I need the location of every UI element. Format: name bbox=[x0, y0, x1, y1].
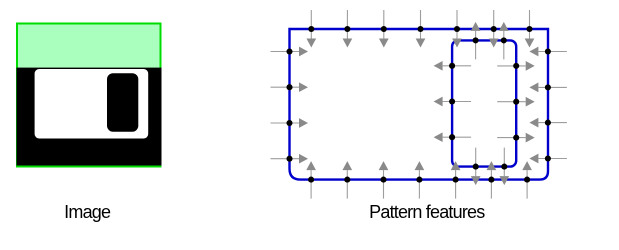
feature point outer-top 3 bbox=[379, 10, 389, 48]
outer pattern contour (blue, sharp top corners, rounded bottom corners) bbox=[290, 29, 549, 180]
feature point outer-bottom 7 bbox=[522, 161, 532, 199]
feature point outer-left 3 bbox=[271, 118, 309, 128]
feature point inner-right 3 bbox=[497, 133, 535, 143]
feature point outer-right 2 bbox=[529, 83, 567, 93]
feature point outer-right 3 bbox=[529, 118, 567, 128]
feature point outer-left 4 bbox=[271, 154, 309, 164]
image icon: black shutter window bbox=[107, 73, 138, 131]
image icon: white shutter plate bbox=[35, 69, 149, 139]
feature point outer-bottom 3 bbox=[379, 161, 389, 199]
feature point outer-top 5 bbox=[452, 10, 462, 48]
feature point outer-top 1 bbox=[306, 10, 316, 48]
feature point outer-bottom 4 bbox=[415, 161, 425, 199]
inner pattern contour (blue rounded rectangle) bbox=[452, 40, 516, 166]
svg-text:Image: Image bbox=[64, 202, 111, 222]
feature point inner-right 2 bbox=[497, 97, 535, 107]
feature point inner-top 2 bbox=[499, 22, 509, 60]
feature point inner-left 1 bbox=[434, 61, 472, 71]
image icon: black floppy body bbox=[17, 68, 162, 166]
image icon: green-bordered square (pale green fill) bbox=[17, 24, 161, 167]
feature point outer-top 2 bbox=[343, 10, 353, 48]
feature point outer-bottom 5 bbox=[451, 161, 461, 199]
feature point inner-left 2 bbox=[434, 97, 472, 107]
feature point inner-left 3 bbox=[434, 132, 472, 142]
feature point outer-bottom 6 bbox=[487, 161, 497, 199]
feature point outer-bottom 2 bbox=[342, 161, 352, 199]
feature point inner-top 1 bbox=[471, 22, 481, 60]
feature point outer-bottom 1 bbox=[306, 161, 316, 199]
feature point outer-right 4 bbox=[529, 154, 567, 164]
feature point outer-left 1 bbox=[271, 47, 309, 57]
feature point outer-top 4 bbox=[416, 10, 426, 48]
feature point inner-right 1 bbox=[497, 61, 535, 71]
feature point inner-bottom 1 bbox=[471, 148, 481, 186]
feature point outer-top 6 bbox=[489, 10, 499, 48]
svg-text:Pattern features: Pattern features bbox=[369, 202, 485, 222]
feature point inner-bottom 2 bbox=[499, 148, 509, 186]
feature point outer-right 1 bbox=[529, 47, 567, 57]
feature point outer-top 7 bbox=[525, 10, 535, 48]
feature point outer-left 2 bbox=[271, 82, 309, 92]
